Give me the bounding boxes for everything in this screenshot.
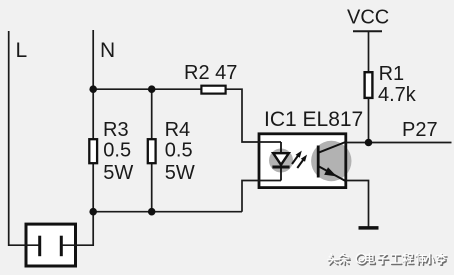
svg-text:5W: 5W (165, 162, 195, 184)
svg-text:0.5: 0.5 (103, 139, 131, 161)
node dot N-rail left (89, 85, 97, 93)
wire N vertical (92, 30, 94, 89)
svg-text:0.5: 0.5 (165, 139, 193, 161)
wire R4 bottom (151, 164, 153, 212)
light arrow 2 (297, 155, 307, 168)
resistor R3 box (89, 139, 97, 163)
wire R4 top (151, 89, 153, 139)
svg-text:IC1 EL817: IC1 EL817 (264, 108, 363, 131)
svg-text:R2 47: R2 47 (184, 62, 237, 84)
node dot bottom rail left (89, 208, 97, 216)
resistor R1 box (365, 72, 373, 98)
phototransistor gray circle (311, 141, 351, 181)
op-to box IC1 white body (259, 134, 346, 188)
svg-text:R3: R3 (103, 119, 129, 141)
connector J1 (mains plug box) (26, 224, 76, 266)
svg-text:VCC: VCC (347, 6, 389, 28)
svg-text:L: L (16, 39, 28, 62)
wire emitter to ground (345, 181, 369, 227)
wire R2 to LED anode (227, 89, 282, 142)
watermark (328, 253, 447, 265)
wire top rail (93, 88, 200, 90)
wire VCC to R1 (368, 31, 370, 72)
resistor R4 box (148, 139, 156, 163)
wire R3 bottom to plug (61, 164, 93, 246)
node dot bottom rail right (148, 208, 156, 216)
LED D1 symbol (272, 142, 289, 181)
node dot P27 (365, 139, 373, 147)
svg-text:R4: R4 (165, 119, 191, 141)
svg-text:4.7k: 4.7k (378, 84, 417, 106)
svg-text:N: N (100, 39, 115, 62)
resistor R2 box (201, 86, 225, 94)
VCC bar (353, 30, 382, 32)
wire R1 to node (368, 98, 370, 143)
light arrow 1 (292, 151, 302, 164)
wire R3 top (92, 89, 94, 139)
LED gray circle (269, 149, 293, 173)
phototransistor Q1 symbol (318, 142, 345, 181)
ground (359, 226, 379, 230)
node dot N-rail right (148, 85, 156, 93)
optocoupler IC1 box outline (259, 134, 346, 188)
wire bottom rail (93, 211, 242, 213)
svg-text:5W: 5W (103, 162, 133, 184)
wire L vertical (9, 31, 40, 245)
wire LED cathode return (242, 181, 281, 212)
svg-text:R1: R1 (379, 63, 405, 85)
svg-text:P27: P27 (402, 119, 438, 141)
wire collector to P27 (345, 142, 452, 144)
